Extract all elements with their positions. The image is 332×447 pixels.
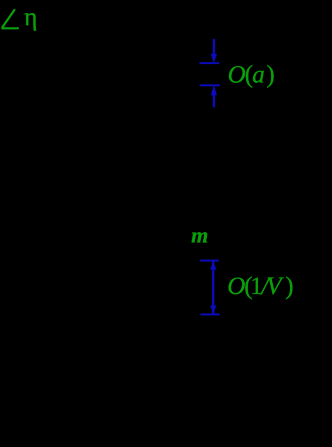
svg-text:m: m	[191, 222, 208, 247]
node O(1/V) label	[227, 273, 293, 300]
wire upper dimension shaft (bottom)	[213, 94, 215, 107]
node angle-eta label	[1, 9, 18, 28]
tick upper-2	[200, 84, 220, 86]
svg-text:): )	[266, 62, 274, 89]
svg-text:a: a	[252, 62, 264, 89]
wire angle base	[1, 27, 18, 29]
tick upper-1	[199, 62, 219, 64]
wire lower dimension shaft	[212, 261, 214, 315]
arrow down	[211, 54, 217, 64]
tick lower-bottom	[200, 314, 219, 316]
svg-text:O: O	[227, 273, 245, 300]
svg-text:): )	[285, 273, 293, 300]
arrow up	[211, 85, 217, 95]
svg-text:O: O	[228, 62, 246, 89]
arrow down (lower dim)	[210, 305, 216, 314]
svg-text:η: η	[24, 4, 37, 31]
node O(a) label	[228, 62, 275, 89]
arrow up (lower dim)	[210, 261, 216, 270]
wire upper dimension shaft (top)	[213, 39, 215, 54]
tick lower-top	[200, 260, 219, 262]
wire angle diagonal	[2, 9, 15, 27]
